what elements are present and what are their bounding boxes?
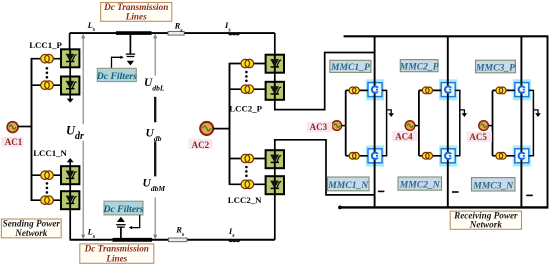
wire MMC3_P branch [493, 89, 515, 91]
wire U_dbL to U_db segment [154, 97, 156, 123]
inductor smoothing reactor bottom (thick bar) [113, 238, 153, 242]
transformer LCC1_N T2 [41, 196, 54, 205]
wire LCC2_N branch 1 [230, 158, 267, 160]
converter MMC3_N box [513, 145, 531, 166]
wire LCC1_P branch 2 [32, 84, 62, 86]
capacitor DC filter bottom stub [120, 227, 122, 240]
svg-text:AC1: AC1 [5, 137, 23, 147]
wire MMC right edge bus [547, 36, 549, 207]
wire AC3 to bus [342, 125, 346, 127]
svg-text:AC2: AC2 [192, 140, 210, 150]
wire AC5 to bus [488, 125, 492, 127]
wire top line drop to LCC1_P [69, 33, 71, 50]
wire between LCC2_P valves [274, 72, 276, 83]
transformer MMC3_P T [496, 87, 506, 94]
AC source AC4 [405, 121, 415, 131]
wire MMC3 converter string [520, 36, 522, 207]
ground arrow MMC3 [533, 110, 540, 117]
wire top DC transmission line [70, 32, 275, 34]
thyristor valve LCC1_P V1 [61, 49, 79, 67]
wire AC2 to LCC2 bus [213, 128, 229, 130]
wire LCC2_P branch 1 [230, 63, 267, 65]
node MMC3_P label [476, 60, 516, 73]
wire LCC1_N up arrow stem [69, 162, 71, 167]
wire MMC2_N branch [419, 155, 441, 157]
node Receiving Power Network label [450, 211, 521, 229]
wire LCC1_P branch 1 [32, 58, 62, 60]
capacitor DC filter bottom plates [116, 225, 125, 227]
thyristor valve LCC2_N V2 [266, 176, 284, 194]
node LCC2_N dotted continuation [245, 166, 248, 177]
wire MMC top neutral bus [344, 35, 549, 37]
node pointer arrowhead top [120, 56, 123, 59]
converter MMC1_N glyph [372, 153, 379, 159]
capacitor DC filter top plates [126, 54, 135, 56]
svg-text:MMC1_P: MMC1_P [330, 62, 370, 73]
wire between LCC1_P valves [69, 67, 71, 77]
svg-text:Network: Network [469, 219, 503, 229]
svg-text:MMC3_P: MMC3_P [475, 62, 515, 73]
wire LCC2_P output to MMC string [275, 53, 375, 110]
node minus terminal MMC1 [378, 190, 385, 192]
converter MMC2_N glyph [445, 153, 452, 159]
AC source AC5 [479, 121, 489, 131]
svg-text:Lines: Lines [105, 253, 127, 263]
wire between LCC1_N valves [69, 184, 71, 192]
transformer MMC2_P T [422, 87, 432, 94]
transformer LCC1_P T2 [41, 81, 54, 90]
ground arrow MMC2 [460, 110, 467, 117]
node LCC1_N arrow [67, 158, 74, 162]
AC source AC3 [332, 121, 342, 131]
svg-text:Dc Filters: Dc Filters [96, 71, 137, 82]
transformer LCC1_N T1 [41, 171, 54, 180]
node LCC1_P arrow [67, 99, 74, 103]
wire AC1 to LCC1 bus [18, 126, 32, 128]
thyristor valve LCC2_N V1 [266, 150, 284, 168]
wire MMC2 midpoint tie [455, 90, 460, 155]
AC source AC2 [200, 122, 213, 135]
wire MMC1_P branch [346, 89, 368, 91]
svg-text:Lines: Lines [125, 11, 147, 21]
svg-text:LCC1_P: LCC1_P [29, 40, 62, 50]
ground arrow DC filter bottom [117, 217, 125, 222]
wire MMC1 converter string [374, 36, 376, 207]
capacitor DC filter top stub [129, 33, 131, 54]
ground arrow MMC1 [387, 110, 394, 117]
wire MMC1 midpoint tie [382, 90, 387, 155]
svg-text:AC4: AC4 [395, 131, 413, 141]
svg-text:LCC2_N: LCC2_N [228, 195, 262, 205]
converter MMC3_N glyph [519, 153, 526, 159]
svg-text:MMC2_N: MMC2_N [399, 180, 441, 191]
svg-text:Network: Network [14, 228, 48, 238]
wire MMC3_N branch [493, 155, 515, 157]
node LCC1_N dotted continuation [46, 182, 49, 194]
svg-text:MMC2_P: MMC2_P [399, 61, 439, 72]
node minus terminal MMC3 [526, 194, 533, 196]
node bottom bus left terminal [338, 206, 342, 210]
node AC4 label [392, 131, 418, 142]
svg-text:AC3: AC3 [310, 122, 328, 132]
converter MMC2_N box [439, 145, 457, 166]
wire between LCC2_N valves [274, 168, 276, 177]
wire MMC3 midpoint tie [529, 90, 534, 155]
node Dc Filters label top [97, 68, 136, 81]
svg-text:Dc Filters: Dc Filters [102, 204, 143, 215]
node minus terminal MMC2 [452, 191, 459, 193]
inductor I_s bottom bumps [229, 240, 240, 242]
node AC3 label [307, 122, 333, 133]
node Dc Filters label bottom [104, 201, 143, 215]
ground arrow DC filter top [127, 61, 134, 66]
node LCC2_P dotted continuation [245, 71, 248, 82]
AC source AC1 [7, 122, 18, 133]
node AC5 label [466, 132, 492, 143]
wire AC4 to bus [415, 125, 419, 127]
transformer MMC1_N T [349, 152, 359, 159]
wire LCC1_P down arrow [69, 94, 71, 99]
wire MMC2 AC bus [418, 90, 420, 155]
node MMC1_N label [328, 177, 370, 191]
node U_dbM measuring line bottom arrow [154, 198, 156, 237]
wire LCC2 AC bus [229, 63, 231, 185]
converter MMC3_P box [513, 79, 531, 100]
wire LCC1_N to bottom line [69, 209, 71, 240]
wire LCC1_N branch 2 [32, 199, 62, 201]
wire MMC1_N branch [346, 155, 368, 157]
wire LCC1_N branch 1 [32, 174, 62, 176]
wire LCC2_N input from MMC string [275, 140, 375, 195]
inductor smoothing reactor top (thick bar) [116, 31, 152, 35]
inductor I_s top bumps [229, 33, 240, 35]
transformer LCC2_N T1 [241, 154, 254, 163]
node U_dr measuring line top arrow [82, 37, 84, 124]
svg-text:LCC1_N: LCC1_N [33, 148, 67, 158]
node Dc Transmission Lines label top [101, 3, 172, 22]
converter MMC3_P glyph [519, 86, 526, 92]
transformer MMC1_P T [349, 87, 359, 94]
wire MMC2 converter string [447, 36, 449, 207]
node pointer arrowhead bottom [129, 226, 132, 229]
wire MMC bottom neutral bus [339, 206, 548, 208]
node LCC1_P dotted continuation [46, 67, 49, 79]
thyristor valve LCC1_P V2 [61, 77, 79, 95]
node MMC1_P label [330, 60, 371, 72]
node Dc Transmission Lines label bottom [80, 244, 154, 263]
converter MMC2_P box [439, 79, 457, 100]
wire pointer to DC filter top [112, 57, 121, 68]
transformer LCC1_P T1 [41, 54, 54, 63]
node MMC2_N label [398, 177, 442, 190]
node U_dbL measuring line top arrow [154, 37, 156, 76]
wire MMC1 AC bus [345, 90, 347, 155]
node AC1 label [2, 137, 24, 147]
node MMC2_P label [400, 60, 438, 72]
svg-text:Dc Transmission: Dc Transmission [84, 244, 149, 254]
thyristor valve LCC1_N V1 [61, 166, 79, 184]
resistor R_s top [168, 31, 184, 35]
node U_dr measuring line bottom arrow [82, 141, 84, 236]
converter MMC2_P glyph [445, 86, 452, 92]
node AC2 label [189, 139, 213, 149]
wire pointer to DC filter bottom [132, 215, 140, 228]
thyristor valve LCC2_P V1 [266, 55, 284, 73]
wire LCC2_P branch 2 [230, 88, 267, 90]
converter MMC1_P glyph [372, 86, 379, 92]
converter MMC1_N box [366, 145, 384, 166]
node MMC3_N label [472, 178, 516, 191]
wire U_db to U_dbM segment [154, 141, 156, 176]
transformer LCC2_P T1 [241, 59, 254, 68]
wire MMC3 AC bus [492, 90, 494, 155]
node Sending Power Network label [1, 219, 61, 238]
wire MMC2_P branch [419, 89, 441, 91]
thyristor valve LCC1_N V2 [61, 191, 79, 209]
wire top line drop to LCC2_P [274, 33, 276, 55]
transformer MMC3_N T [496, 152, 506, 159]
svg-text:MMC1_N: MMC1_N [327, 180, 369, 191]
wire LCC2_N to bottom line [274, 194, 276, 240]
thyristor valve LCC2_P V2 [266, 82, 284, 100]
wire LCC1 AC bus [31, 58, 33, 201]
resistor R_s bottom [169, 238, 188, 242]
transformer LCC2_N T2 [241, 180, 254, 189]
svg-text:LCC2_P: LCC2_P [229, 104, 262, 114]
transformer LCC2_P T2 [241, 85, 254, 94]
transformer MMC2_N T [422, 152, 432, 159]
svg-text:MMC3_N: MMC3_N [472, 180, 514, 191]
converter MMC1_P box [366, 79, 384, 100]
wire bottom DC transmission line [70, 239, 275, 241]
wire LCC2_N branch 2 [230, 183, 267, 185]
svg-text:AC5: AC5 [469, 132, 487, 142]
